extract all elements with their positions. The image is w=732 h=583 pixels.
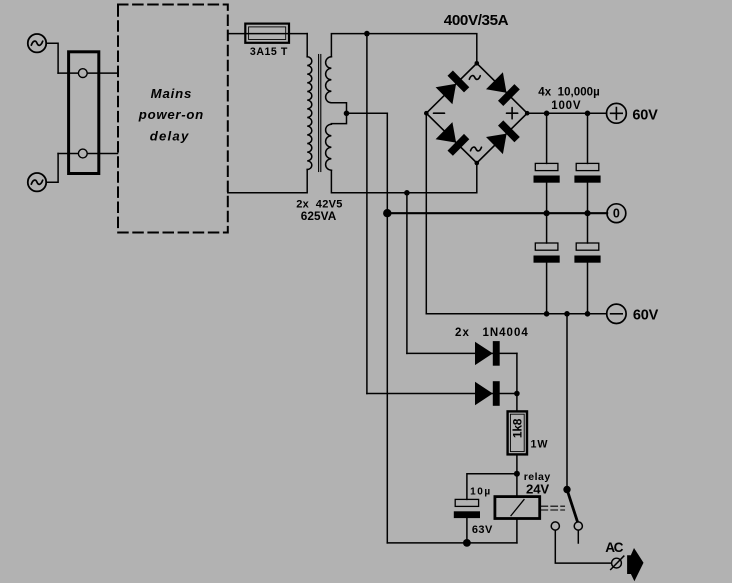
svg-text:100V: 100V (551, 100, 581, 112)
svg-text:400V/35A: 400V/35A (444, 12, 509, 29)
svg-text:2x 1N4004: 2x 1N4004 (455, 327, 528, 339)
svg-text:1W: 1W (531, 439, 549, 451)
svg-text:delay: delay (150, 129, 189, 144)
svg-text:63V: 63V (472, 524, 493, 536)
svg-text:24V: 24V (526, 482, 549, 497)
svg-text:AC: AC (605, 540, 623, 555)
svg-text:3A15 T: 3A15 T (250, 46, 288, 58)
svg-text:60V: 60V (632, 107, 658, 123)
svg-text:60V: 60V (633, 307, 659, 323)
svg-text:10µ: 10µ (470, 486, 490, 497)
svg-text:power-on: power-on (138, 107, 203, 122)
svg-text:4x 10,000µ: 4x 10,000µ (538, 87, 600, 99)
svg-text:0: 0 (613, 207, 620, 221)
svg-text:625VA: 625VA (301, 209, 337, 223)
svg-text:1k8: 1k8 (510, 418, 524, 438)
svg-text:Mains: Mains (151, 86, 192, 101)
